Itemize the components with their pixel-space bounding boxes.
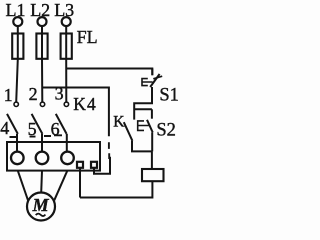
heater terminal circle 3: [61, 152, 74, 165]
svg-text:S1: S1: [159, 85, 179, 105]
switch S2 pushbutton actuator: [138, 121, 149, 130]
svg-text:M: M: [32, 195, 50, 215]
wire S2 bottom: [151, 132, 153, 151]
switch S1 closed-contact bar: [153, 76, 162, 79]
wire square2 down and right: [94, 157, 110, 174]
svg-text:2: 2: [29, 84, 38, 104]
heater terminal circle 1: [11, 152, 24, 165]
switch S1 top stub: [151, 69, 153, 76]
wire to coil K: [151, 151, 153, 169]
contact K4 blade pole1: [7, 114, 18, 134]
motor feed wire middle: [40, 171, 43, 193]
svg-text:1: 1: [4, 85, 13, 105]
fuse FL phase3: [61, 34, 72, 59]
switch S1 blade: [150, 74, 159, 87]
heater terminal circle 2: [36, 152, 49, 165]
svg-text:S2: S2: [156, 120, 176, 140]
coil K: [142, 169, 164, 181]
relay contact terminal square 2: [91, 162, 97, 168]
wire square1 down to bottom bus: [79, 168, 81, 198]
wire phase2 vertical: [41, 26, 43, 102]
svg-text:K: K: [113, 114, 125, 131]
parallel bracket top: [134, 108, 152, 110]
contact K4 blade pole3: [56, 114, 67, 134]
svg-text:K4: K4: [73, 94, 97, 114]
wire pole2 blade to box: [41, 134, 43, 152]
wire pole1 blade to box: [16, 134, 18, 152]
mechanical link dashed line of K4: [10, 135, 63, 137]
terminal circle L1: [13, 17, 22, 26]
fuse FL phase1: [12, 34, 23, 59]
motor feed wire left: [18, 171, 28, 201]
svg-text:3: 3: [55, 84, 64, 104]
wire phase3 vertical: [65, 26, 67, 102]
motor M circle: [27, 193, 55, 221]
wire phase1 vertical (terminal to switch pivot): [16, 26, 18, 102]
contact K4 pivot circle pole2: [40, 102, 44, 106]
contact K4 blade pole2: [32, 114, 43, 134]
contact K4 pivot circle pole1: [14, 102, 18, 106]
terminal circle L2: [38, 17, 47, 26]
svg-text:4: 4: [0, 118, 9, 138]
wire pole3 blade to box: [66, 134, 68, 152]
wire K branch bottom: [132, 141, 152, 152]
dashed linkage segment on right vertical: [108, 142, 110, 159]
switch S2 blade: [147, 120, 153, 133]
svg-text:FL: FL: [77, 27, 98, 47]
S2 fixed arm: [151, 109, 153, 118]
motor feed wire right: [54, 171, 67, 201]
motor AC tilde: [36, 214, 46, 216]
wire control tap B (phase2 to right vertical): [42, 88, 109, 137]
wire control tap A (phase3 to S1): [66, 69, 152, 76]
contact K aux blade: [124, 122, 133, 141]
wire coil bottom: [80, 181, 152, 197]
terminal circle L3: [62, 17, 71, 26]
fuse FL phase2: [36, 34, 47, 59]
wire S1 bottom to parallel block: [134, 87, 152, 120]
switch S1 pushbutton actuator: [142, 79, 153, 86]
relay contact terminal square 1: [77, 162, 83, 168]
thermal relay box: [7, 142, 100, 171]
contact K4 pivot circle pole3: [64, 102, 68, 106]
